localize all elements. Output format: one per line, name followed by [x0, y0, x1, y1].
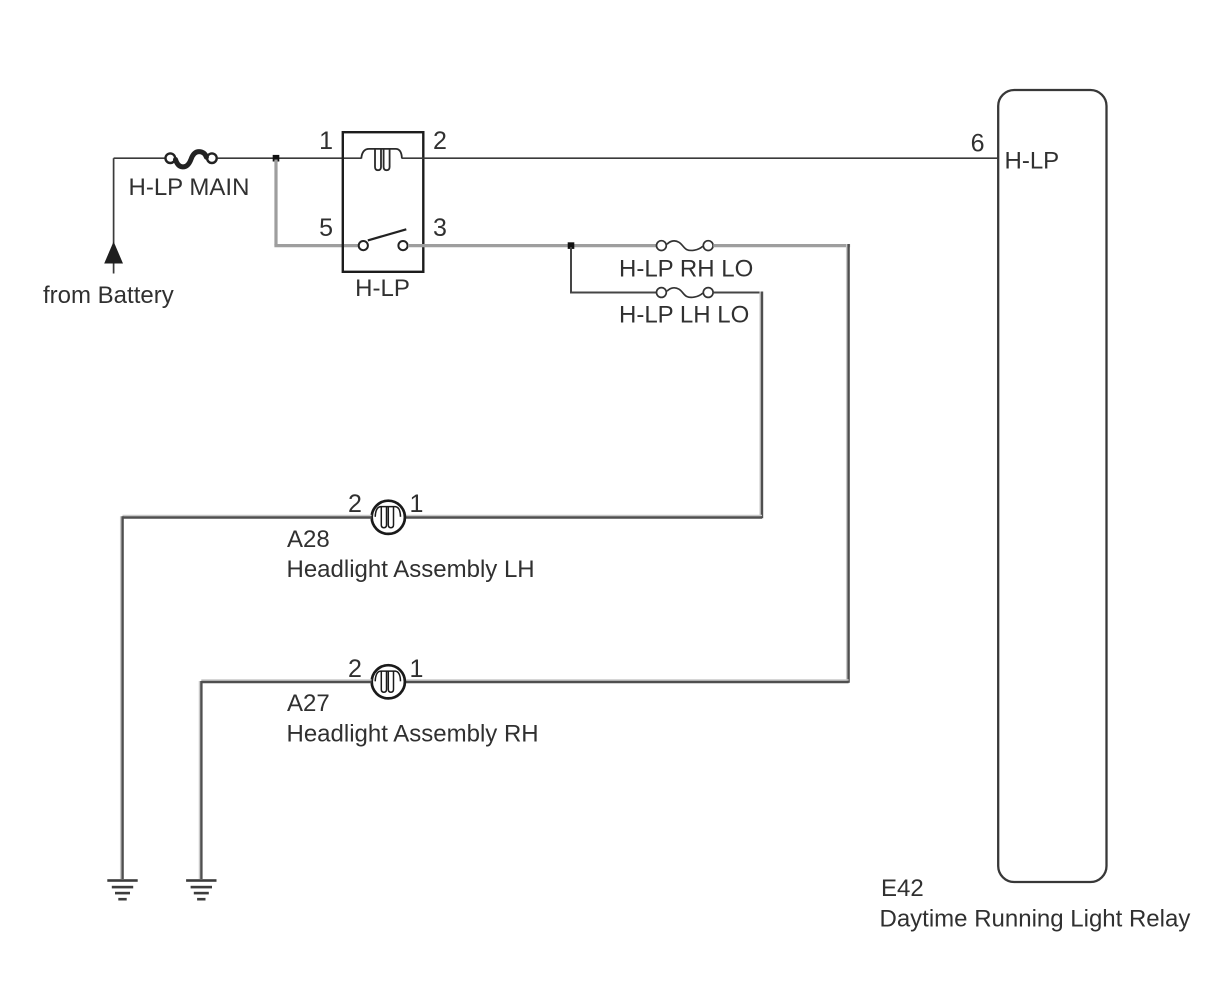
- fuse H-LP LH LO: [657, 288, 714, 298]
- node: junction at battery feed: [273, 155, 280, 162]
- wire: relay pin 2 to E42 pin 6: [402, 157, 998, 159]
- svg-text:H-LP MAIN: H-LP MAIN: [129, 174, 250, 201]
- relay switch: [359, 229, 408, 250]
- svg-text:Daytime Running Light Relay: Daytime Running Light Relay: [880, 906, 1191, 933]
- connector E42 Daytime Running Light Relay: [998, 90, 1106, 882]
- svg-text:A28: A28: [287, 526, 330, 553]
- svg-text:2: 2: [348, 490, 362, 518]
- wire: battery feed vertical: [113, 158, 115, 273]
- wire: A28 row right of bulb: [405, 515, 762, 517]
- svg-text:3: 3: [433, 214, 447, 242]
- svg-text:A27: A27: [287, 690, 330, 717]
- from Battery arrow: [104, 242, 123, 264]
- svg-text:1: 1: [410, 655, 424, 683]
- wire: junction down to relay pin 5 (gray): [274, 160, 277, 246]
- wire: A28 left to ground: [123, 515, 372, 517]
- svg-text:1: 1: [410, 490, 424, 518]
- wire: A27 row right of bulb: [405, 679, 849, 681]
- wire: outer vertical down to A27 row: [846, 244, 848, 681]
- svg-text:Headlight Assembly LH: Headlight Assembly LH: [287, 556, 535, 583]
- wire: inner vertical down to A28 row: [759, 292, 761, 517]
- svg-text:2: 2: [433, 127, 447, 155]
- wire: fuse to relay coil pin 1: [218, 157, 362, 159]
- fuse H-LP MAIN (fusible link): [166, 152, 217, 167]
- bulb A28 (headlight LH): [372, 501, 405, 534]
- svg-text:2: 2: [348, 655, 362, 683]
- svg-text:Headlight Assembly RH: Headlight Assembly RH: [287, 721, 539, 748]
- wire: A27 left to ground: [201, 679, 371, 681]
- bulb A27 (headlight RH): [372, 665, 405, 698]
- wire: relay pin 3 to fuses (gray): [408, 244, 657, 247]
- node: junction at pin 3 branch: [568, 242, 575, 249]
- svg-text:6: 6: [971, 130, 985, 158]
- svg-text:E42: E42: [881, 875, 924, 902]
- relay coil: [361, 149, 402, 170]
- svg-text:from Battery: from Battery: [43, 282, 174, 309]
- relay H-LP box: [343, 132, 424, 272]
- svg-text:H-LP: H-LP: [1005, 148, 1060, 175]
- ground (A27): [186, 879, 216, 900]
- svg-text:H-LP RH LO: H-LP RH LO: [619, 256, 753, 283]
- svg-text:5: 5: [319, 214, 333, 242]
- ground (A28): [107, 879, 137, 900]
- wire: fuse LH LO to inner corner: [713, 292, 763, 294]
- svg-text:H-LP LH LO: H-LP LH LO: [619, 302, 749, 329]
- fuse H-LP RH LO: [657, 241, 714, 251]
- wire: branch down to fuse LH LO: [570, 247, 572, 293]
- wire: battery to fuse H-LP MAIN: [114, 157, 165, 159]
- wire: fuse RH LO to right corner (gray): [713, 244, 850, 247]
- svg-text:H-LP: H-LP: [355, 275, 410, 302]
- svg-text:1: 1: [319, 127, 333, 155]
